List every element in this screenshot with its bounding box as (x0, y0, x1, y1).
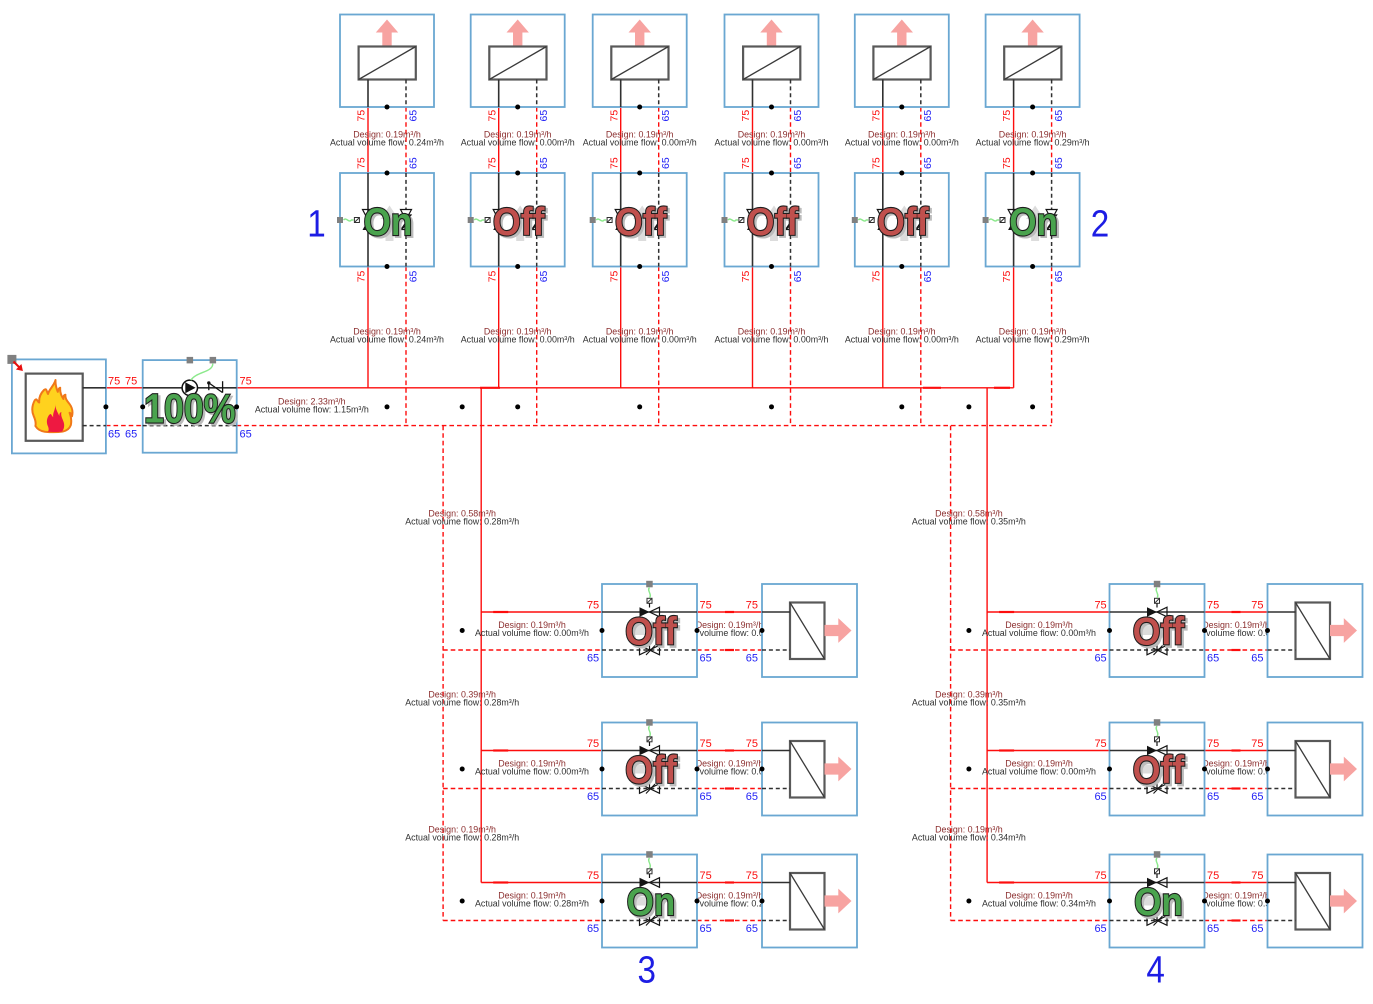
valve V9 control signal wire (649, 858, 651, 868)
node valve V11 inlet (1107, 767, 1112, 772)
svg-text:75: 75 (587, 738, 599, 750)
pump control ports (187, 357, 194, 364)
node valve V2 outlet (515, 264, 520, 269)
return row pipe group 3 row 3 (443, 920, 602, 922)
node radiator R6 outlet (1030, 105, 1035, 110)
svg-text:Actual volume flow: 0.00m³/h: Actual volume flow: 0.00m³/h (845, 334, 959, 344)
node valve V3 outlet (637, 264, 642, 269)
supply riser pipe column 2 (498, 107, 500, 173)
boiler anchor handle (7, 355, 16, 364)
node branch tee group 3 row 3 (460, 899, 465, 904)
svg-text:65: 65 (700, 791, 712, 803)
svg-text:On: On (1009, 201, 1058, 244)
return riser pipe column 3 (658, 107, 660, 173)
svg-text:75: 75 (108, 375, 120, 387)
svg-text:Actual volume flow: 0.00m³/h: Actual volume flow: 0.00m³/h (982, 628, 1096, 638)
node valve V7 inlet (600, 628, 605, 633)
valve V7 control port (646, 581, 653, 588)
radiator R7 (762, 584, 857, 677)
svg-text:65: 65 (1053, 110, 1065, 122)
svg-text:75: 75 (1251, 600, 1263, 612)
svg-text:4: 4 (1146, 950, 1165, 992)
svg-text:75: 75 (870, 157, 882, 169)
supply pipe boiler to pump (106, 387, 143, 389)
svg-text:Actual volume flow: 0.00m³/h: Actual volume flow: 0.00m³/h (583, 334, 697, 344)
node radiator R7 inlet (760, 628, 765, 633)
return row pipe group 3 row 2 (443, 788, 602, 790)
radiator R6 (986, 15, 1080, 108)
svg-text:65: 65 (660, 110, 672, 122)
svg-text:65: 65 (1251, 923, 1263, 935)
node branch tee group 4 row 3 (966, 899, 971, 904)
node valve V5 inlet (899, 171, 904, 176)
svg-text:Actual volume flow: 0.24m³/h: Actual volume flow: 0.24m³/h (330, 334, 444, 344)
supply row pipe group 3 row 2 (481, 750, 602, 752)
return riser pipe column 2 (536, 107, 538, 173)
svg-text:65: 65 (1094, 791, 1106, 803)
supply row pipe group 3 row 1 (481, 611, 602, 613)
supply pipe valve to radiator group 3 row 1 (697, 611, 762, 613)
svg-text:65: 65 (125, 428, 137, 440)
bus pipe overlap ticks (480, 387, 500, 389)
supply riser pipe column 5 (882, 107, 884, 173)
svg-text:75: 75 (608, 270, 620, 282)
svg-text:65: 65 (922, 110, 934, 122)
svg-text:Actual volume flow: 0.00m³/h: Actual volume flow: 0.00m³/h (982, 767, 1096, 777)
node radiator R4 outlet (769, 105, 774, 110)
svg-text:On: On (1134, 881, 1183, 924)
svg-text:65: 65 (792, 157, 804, 169)
return pipe valve to radiator group 4 row 3 (1205, 920, 1268, 922)
node radiator R1 outlet (385, 105, 390, 110)
svg-text:65: 65 (407, 110, 419, 122)
valve V11 (1110, 723, 1205, 816)
svg-text:Actual volume flow: 0.00m³/h: Actual volume flow: 0.00m³/h (845, 138, 959, 148)
svg-text:75: 75 (486, 157, 498, 169)
node radiator R12 inlet (1265, 899, 1270, 904)
node branch tee group 3 row 1 (460, 628, 465, 633)
svg-text:75: 75 (740, 270, 752, 282)
supply row pipe group 4 row 3 (987, 882, 1109, 884)
boiler (12, 359, 106, 453)
node valve V10 outlet (1202, 628, 1207, 633)
node radiator R5 outlet (899, 105, 904, 110)
supply bus pipe (237, 387, 1014, 389)
return riser pipe column 1 (405, 107, 407, 173)
node bus junction 2 (140, 404, 145, 409)
valve V5 (855, 173, 949, 267)
svg-text:65: 65 (538, 157, 550, 169)
node valve V3 inlet (637, 171, 642, 176)
svg-text:75: 75 (125, 375, 137, 387)
svg-text:75: 75 (870, 110, 882, 122)
node valve V6 outlet (1030, 264, 1035, 269)
node branch tee group 4 row 2 (966, 767, 971, 772)
node branch tee group 4 row 1 (966, 628, 971, 633)
svg-text:65: 65 (922, 157, 934, 169)
node valve V6 inlet (1030, 171, 1035, 176)
svg-text:75: 75 (587, 870, 599, 882)
valve V9 (602, 855, 697, 948)
svg-text:75: 75 (700, 870, 712, 882)
svg-text:Actual volume flow: 0.00m³/h: Actual volume flow: 0.00m³/h (583, 138, 697, 148)
node branch tee group 3 row 2 (460, 767, 465, 772)
svg-text:65: 65 (407, 157, 419, 169)
supply riser pipe column 1 (367, 107, 369, 173)
svg-text:Actual volume flow: 0.28m³/h: Actual volume flow: 0.28m³/h (405, 697, 519, 707)
valve V8 (602, 723, 697, 816)
svg-text:75: 75 (700, 738, 712, 750)
valve V11 control port (1154, 719, 1161, 726)
svg-text:65: 65 (1094, 653, 1106, 665)
svg-text:65: 65 (587, 653, 599, 665)
node bus junction 5 (460, 404, 465, 409)
svg-text:Off: Off (747, 201, 800, 244)
svg-text:75: 75 (746, 870, 758, 882)
supply branch pipe group 3 (480, 388, 482, 883)
node radiator R11 inlet (1265, 767, 1270, 772)
valve V12 control signal wire (1156, 858, 1158, 868)
return branch pipe group 4 (950, 426, 952, 921)
valve V6 control signal wire (989, 219, 999, 221)
svg-text:65: 65 (660, 157, 672, 169)
svg-text:On: On (364, 201, 413, 244)
radiator R11 (1268, 723, 1363, 816)
svg-text:75: 75 (1094, 600, 1106, 612)
svg-text:65: 65 (700, 653, 712, 665)
svg-text:65: 65 (538, 270, 550, 282)
svg-text:75: 75 (356, 157, 368, 169)
svg-text:65: 65 (407, 270, 419, 282)
node bus junction 9 (899, 404, 904, 409)
node valve V1 outlet (385, 264, 390, 269)
valve V3 control port (590, 217, 596, 223)
svg-text:75: 75 (700, 600, 712, 612)
radiator R1 (340, 15, 434, 108)
return row pipe group 4 row 3 (951, 920, 1110, 922)
svg-text:65: 65 (587, 791, 599, 803)
svg-text:75: 75 (608, 157, 620, 169)
svg-text:65: 65 (240, 428, 252, 440)
svg-text:Actual volume flow: 0.28m³/h: Actual volume flow: 0.28m³/h (405, 516, 519, 526)
return row pipe group 4 row 2 (951, 788, 1110, 790)
node bus junction 7 (637, 404, 642, 409)
return pipe valve to radiator group 3 row 3 (697, 920, 762, 922)
svg-text:75: 75 (1207, 870, 1219, 882)
svg-text:Off: Off (493, 201, 546, 244)
valve V6 control port (983, 217, 989, 223)
return riser pipe column 4 (790, 107, 792, 173)
svg-text:65: 65 (538, 110, 550, 122)
return riser pipe column 6 (1051, 107, 1053, 173)
svg-text:65: 65 (746, 653, 758, 665)
node valve V2 inlet (515, 171, 520, 176)
valve V5 control signal wire (858, 219, 868, 221)
radiator R5 (855, 15, 949, 108)
svg-text:65: 65 (1207, 791, 1219, 803)
return pipe boiler to pump (106, 425, 143, 427)
valve V3 (593, 173, 687, 267)
supply pipe valve to radiator group 4 row 2 (1205, 750, 1268, 752)
svg-text:Actual volume flow: 0.00m³/h: Actual volume flow: 0.00m³/h (715, 334, 829, 344)
svg-text:75: 75 (740, 157, 752, 169)
supply branch pipe group 4 (986, 388, 988, 883)
valve V7 control signal wire (649, 588, 651, 598)
valve V10 control port (1154, 581, 1161, 588)
valve V4 control port (722, 217, 728, 223)
svg-text:75: 75 (1094, 738, 1106, 750)
svg-text:Off: Off (615, 201, 668, 244)
svg-text:Actual volume flow: 0.00m³/h: Actual volume flow: 0.00m³/h (475, 628, 589, 638)
valve V4 (725, 173, 819, 267)
svg-text:75: 75 (608, 110, 620, 122)
svg-text:75: 75 (1001, 157, 1013, 169)
svg-text:65: 65 (792, 110, 804, 122)
svg-text:65: 65 (587, 923, 599, 935)
svg-text:Actual volume flow: 0.29m³/h: Actual volume flow: 0.29m³/h (976, 138, 1090, 148)
return row pipe group 3 row 1 (443, 649, 602, 651)
valve V8 control port (646, 719, 653, 726)
svg-text:75: 75 (746, 600, 758, 612)
svg-text:75: 75 (1207, 738, 1219, 750)
radiator R8 (762, 723, 857, 816)
return pipe valve to radiator group 3 row 1 (697, 649, 762, 651)
svg-text:75: 75 (870, 270, 882, 282)
supply row pipe group 3 row 3 (481, 882, 602, 884)
svg-text:65: 65 (1053, 157, 1065, 169)
valve V10 control signal wire (1156, 588, 1158, 598)
radiator R2 (471, 15, 565, 108)
svg-text:Actual volume flow: 0.29m³/h: Actual volume flow: 0.29m³/h (976, 334, 1090, 344)
valve V12 control port (1154, 851, 1161, 858)
valve V5 control port (852, 217, 858, 223)
svg-text:75: 75 (240, 375, 252, 387)
valve V1 control signal wire (344, 219, 354, 221)
svg-text:On: On (627, 881, 676, 924)
svg-text:75: 75 (1207, 600, 1219, 612)
valve V6 (986, 173, 1080, 267)
svg-text:75: 75 (587, 600, 599, 612)
node bus junction 8 (769, 404, 774, 409)
valve V12 (1110, 855, 1205, 948)
node valve V4 outlet (769, 264, 774, 269)
svg-text:65: 65 (1251, 791, 1263, 803)
svg-text:75: 75 (1251, 870, 1263, 882)
svg-text:65: 65 (700, 923, 712, 935)
svg-text:Actual volume flow: 0.34m³/h: Actual volume flow: 0.34m³/h (982, 899, 1096, 909)
svg-text:Actual volume flow: 0.24m³/h: Actual volume flow: 0.24m³/h (330, 138, 444, 148)
svg-text:65: 65 (792, 270, 804, 282)
node radiator R3 outlet (637, 105, 642, 110)
svg-text:65: 65 (1053, 270, 1065, 282)
valve V1 (340, 173, 434, 267)
svg-text:75: 75 (356, 110, 368, 122)
radiator R3 (593, 15, 687, 108)
svg-text:65: 65 (1207, 923, 1219, 935)
svg-text:65: 65 (1207, 653, 1219, 665)
node bus junction 4 (385, 404, 390, 409)
svg-text:75: 75 (486, 270, 498, 282)
return pipe valve to radiator group 3 row 2 (697, 788, 762, 790)
valve V2 control port (468, 217, 474, 223)
svg-text:75: 75 (486, 110, 498, 122)
supply pipe valve to radiator group 3 row 3 (697, 882, 762, 884)
node radiator R8 inlet (760, 767, 765, 772)
valve V2 control signal wire (474, 219, 484, 221)
node valve V5 outlet (899, 264, 904, 269)
svg-text:1: 1 (307, 204, 326, 246)
return pipe valve to radiator group 4 row 1 (1205, 649, 1268, 651)
svg-text:65: 65 (746, 923, 758, 935)
return bus pipe (237, 425, 1052, 427)
svg-text:75: 75 (1001, 270, 1013, 282)
supply riser pipe column 6 (1013, 107, 1015, 173)
clipped flow labels between bottom valves and radiators (673, 620, 1294, 909)
svg-text:65: 65 (746, 791, 758, 803)
svg-text:Actual volume flow: 0.35m³/h: Actual volume flow: 0.35m³/h (912, 516, 1026, 526)
valve V7 (602, 584, 697, 677)
svg-text:Actual volume flow: 0.35m³/h: Actual volume flow: 0.35m³/h (912, 697, 1026, 707)
node valve V12 outlet (1202, 899, 1207, 904)
valve V9 control port (646, 851, 653, 858)
node valve V9 outlet (695, 899, 700, 904)
return pipe valve to radiator group 4 row 2 (1205, 788, 1268, 790)
svg-text:Off: Off (625, 749, 678, 792)
node radiator R9 inlet (760, 899, 765, 904)
valve V1 control port (337, 217, 343, 223)
svg-text:75: 75 (740, 110, 752, 122)
node valve V9 inlet (600, 899, 605, 904)
radiator R12 (1268, 855, 1363, 948)
svg-text:Actual volume flow: 0.00m³/h: Actual volume flow: 0.00m³/h (475, 767, 589, 777)
node bus junction 10 (966, 404, 971, 409)
svg-text:Actual volume flow: 1.15m³/h: Actual volume flow: 1.15m³/h (255, 405, 369, 415)
svg-text:75: 75 (356, 270, 368, 282)
svg-text:65: 65 (108, 428, 120, 440)
valve V4 control signal wire (728, 219, 738, 221)
node valve V1 inlet (385, 171, 390, 176)
node valve V8 outlet (695, 767, 700, 772)
svg-text:65: 65 (660, 270, 672, 282)
radiator R9 (762, 855, 857, 948)
valve V8 control signal wire (649, 726, 651, 736)
supply riser pipe column 3 (620, 107, 622, 173)
node valve V12 inlet (1107, 899, 1112, 904)
svg-text:Off: Off (1133, 611, 1186, 654)
return branch pipe group 3 (442, 426, 444, 921)
node valve V7 outlet (695, 628, 700, 633)
svg-text:75: 75 (746, 738, 758, 750)
return riser pipe column 5 (920, 107, 922, 173)
svg-text:Actual volume flow: 0.28m³/h: Actual volume flow: 0.28m³/h (405, 833, 519, 843)
supply riser pipe column 4 (752, 107, 754, 173)
pump control signal wire (191, 364, 213, 381)
valve V3 control signal wire (596, 219, 606, 221)
radiator R10 (1268, 584, 1363, 677)
svg-text:Off: Off (625, 611, 678, 654)
supply row pipe group 4 row 2 (987, 750, 1109, 752)
node bus junction 11 (1030, 404, 1035, 409)
svg-text:75: 75 (1094, 870, 1106, 882)
valve V10 (1110, 584, 1205, 677)
svg-text:Actual volume flow: 0.00m³/h: Actual volume flow: 0.00m³/h (461, 334, 575, 344)
pump (143, 360, 238, 453)
node radiator R10 inlet (1265, 628, 1270, 633)
supply row pipe group 4 row 1 (987, 611, 1109, 613)
valve V2 (471, 173, 565, 267)
svg-text:Off: Off (1133, 749, 1186, 792)
svg-text:75: 75 (1001, 110, 1013, 122)
node radiator R2 outlet (515, 105, 520, 110)
node valve V4 inlet (769, 171, 774, 176)
svg-text:Off: Off (877, 201, 930, 244)
supply pipe valve to radiator group 3 row 2 (697, 750, 762, 752)
svg-text:100%: 100% (144, 385, 236, 431)
return row pipe group 4 row 1 (951, 649, 1110, 651)
valve V11 control signal wire (1156, 726, 1158, 736)
node valve V8 inlet (600, 767, 605, 772)
svg-text:Actual volume flow: 0.00m³/h: Actual volume flow: 0.00m³/h (715, 138, 829, 148)
node bus junction 6 (515, 404, 520, 409)
svg-text:2: 2 (1091, 204, 1110, 246)
svg-text:65: 65 (922, 270, 934, 282)
node bus junction 3 (234, 404, 239, 409)
supply pipe valve to radiator group 4 row 3 (1205, 882, 1268, 884)
node valve V11 outlet (1202, 767, 1207, 772)
svg-text:3: 3 (638, 950, 657, 992)
svg-text:Actual volume flow: 0.34m³/h: Actual volume flow: 0.34m³/h (912, 833, 1026, 843)
svg-text:65: 65 (1094, 923, 1106, 935)
supply pipe valve to radiator group 4 row 1 (1205, 611, 1268, 613)
svg-text:75: 75 (1251, 738, 1263, 750)
svg-text:Actual volume flow: 0.28m³/h: Actual volume flow: 0.28m³/h (475, 899, 589, 909)
node valve V10 inlet (1107, 628, 1112, 633)
svg-text:65: 65 (1251, 653, 1263, 665)
svg-text:Actual volume flow: 0.00m³/h: Actual volume flow: 0.00m³/h (461, 138, 575, 148)
radiator R4 (725, 15, 819, 108)
boiler anchor arrow (14, 362, 20, 368)
node bus junction 1 (103, 404, 108, 409)
